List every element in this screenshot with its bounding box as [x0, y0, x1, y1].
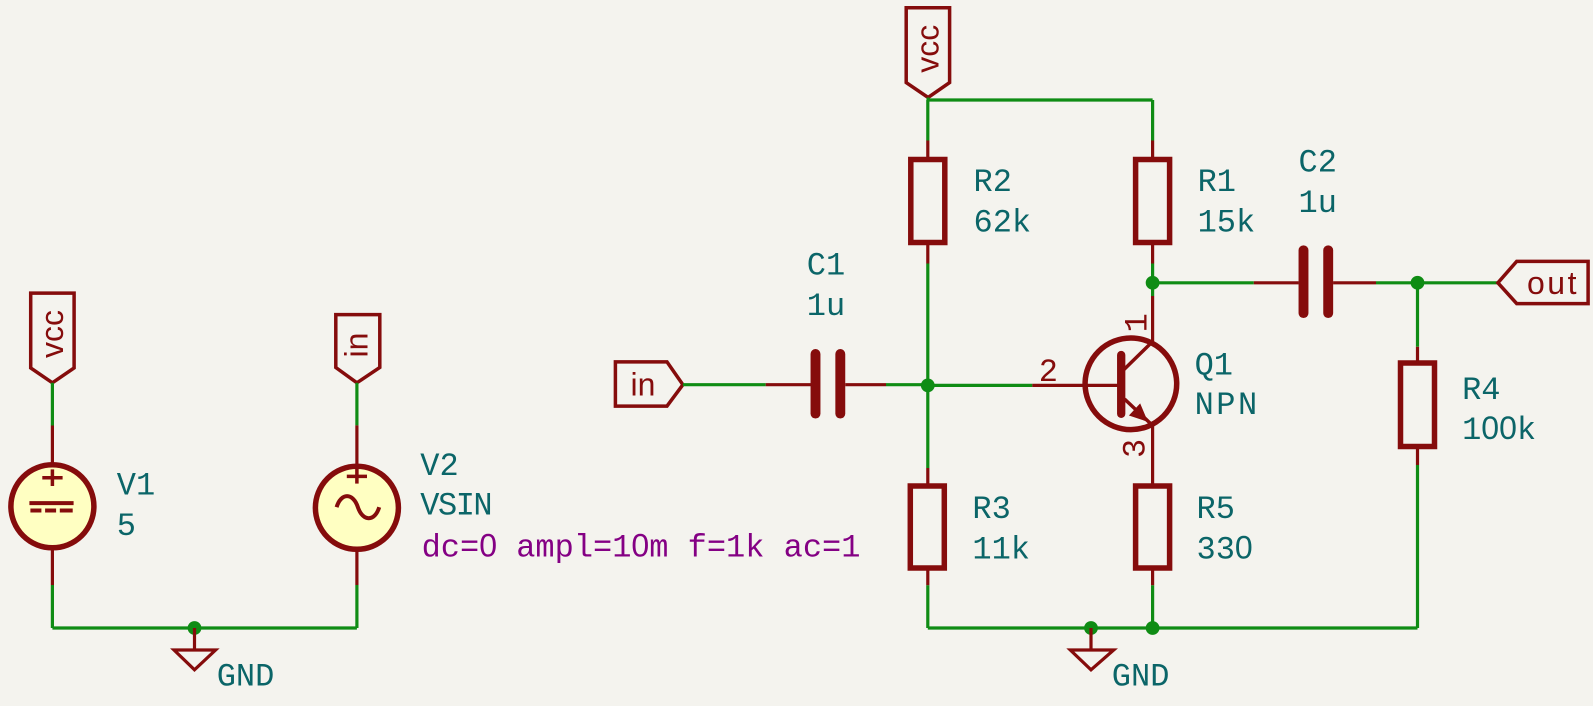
svg-text:62k: 62k	[974, 205, 1032, 242]
junction left ground node	[188, 621, 202, 635]
svg-text:1u: 1u	[1299, 185, 1337, 222]
power flag VCC (left, above V1)	[31, 293, 74, 383]
svg-text:vcc: vcc	[910, 25, 946, 73]
transistor Q1	[1032, 338, 1176, 430]
svg-text:V2: V2	[420, 448, 458, 485]
wire vcc flag to V1 pin	[51, 383, 54, 426]
capacitor C2	[1254, 250, 1376, 313]
svg-text:R1: R1	[1198, 164, 1236, 201]
ground symbol GND (left)	[174, 628, 216, 670]
voltage source V2 (VSIN)	[315, 466, 398, 549]
Q1 collector pin wire (green stub)	[1151, 283, 1154, 296]
svg-text:R2: R2	[974, 164, 1012, 201]
wire vcc down to R2	[926, 100, 929, 141]
Q1 emitter pin	[1151, 426, 1154, 487]
svg-text:330: 330	[1197, 529, 1253, 568]
resistor R3	[910, 486, 944, 568]
svg-text:2: 2	[1039, 354, 1058, 391]
svg-text:in: in	[339, 333, 375, 358]
wire V1 to ground rail	[51, 585, 54, 628]
ground symbol GND (right)	[1070, 628, 1113, 670]
svg-text:15k: 15k	[1198, 205, 1256, 242]
resistor R2	[911, 160, 945, 243]
svg-text:R4: R4	[1462, 372, 1500, 409]
svg-text:C1: C1	[807, 247, 845, 284]
svg-text:R5: R5	[1197, 491, 1235, 528]
R1 top pin	[1151, 141, 1154, 161]
wire V2 to ground rail	[355, 585, 358, 628]
resistor R1	[1136, 160, 1170, 243]
global label out	[1498, 261, 1588, 303]
wire rail down to R1	[1151, 100, 1154, 141]
R2 top pin	[926, 141, 929, 161]
V2 positive pin	[355, 425, 358, 487]
R5 bottom pin	[1151, 568, 1154, 585]
wire out node down to R4	[1416, 283, 1419, 347]
wire R1 to collector node	[1151, 264, 1154, 283]
svg-text:V1: V1	[117, 468, 155, 505]
ground rail wire (right)	[928, 626, 1418, 629]
junction collector node	[1146, 276, 1160, 290]
power flag VCC (amplifier, top)	[906, 8, 949, 98]
svg-text:VSIN: VSIN	[420, 488, 491, 525]
wire in flag to V2 pin	[355, 383, 358, 426]
wire C2 to out node	[1376, 281, 1418, 284]
ground rail wire (left)	[52, 626, 357, 629]
V2 negative pin	[355, 549, 358, 585]
resistor R4	[1401, 363, 1435, 447]
wire C1 to base node	[886, 383, 928, 386]
svg-text:Q1: Q1	[1195, 347, 1233, 384]
junction ground node (R5 leg)	[1146, 621, 1160, 635]
svg-text:out: out	[1527, 265, 1579, 301]
svg-text:NPN: NPN	[1195, 387, 1260, 424]
wire out node to out label	[1418, 281, 1499, 284]
junction base node	[921, 379, 935, 393]
svg-text:GND: GND	[1112, 659, 1170, 696]
svg-text:3: 3	[1118, 439, 1155, 458]
svg-text:5: 5	[117, 508, 136, 545]
svg-text:1u: 1u	[807, 288, 845, 325]
wire R2 to base node	[926, 264, 929, 386]
svg-text:C2: C2	[1299, 145, 1337, 182]
junction ground node (GND stem)	[1084, 621, 1098, 635]
R3 top pin	[926, 468, 929, 486]
R4 bottom pin	[1416, 447, 1419, 466]
R2 bottom pin	[926, 243, 929, 264]
V1 negative pin	[51, 548, 54, 585]
wire base node to Q1	[928, 384, 1033, 387]
wire top rail	[928, 98, 1153, 101]
Q1 collector pin	[1151, 296, 1154, 342]
svg-text:GND: GND	[217, 659, 275, 696]
R1 bottom pin	[1151, 243, 1154, 264]
svg-text:vcc: vcc	[34, 310, 70, 358]
svg-text:dc=0 ampl=10m f=1k ac=1: dc=0 ampl=10m f=1k ac=1	[422, 528, 861, 567]
capacitor C1	[766, 354, 886, 414]
wire collector node to C2	[1153, 281, 1254, 284]
resistor R5	[1136, 486, 1170, 568]
global label in (amplifier input)	[615, 362, 683, 406]
global label in (source side, above V2)	[336, 315, 380, 383]
svg-text:R3: R3	[972, 491, 1010, 528]
svg-text:1: 1	[1119, 313, 1156, 332]
svg-text:in: in	[631, 367, 656, 403]
svg-text:100k: 100k	[1462, 410, 1536, 449]
R4 top pin	[1416, 347, 1419, 364]
wire in label to C1	[683, 383, 766, 386]
junction out node	[1411, 276, 1425, 290]
R3 bottom pin	[926, 568, 929, 585]
V1 positive pin	[51, 426, 54, 488]
wire R5 to ground rail	[1151, 585, 1154, 628]
wire base node down to R3	[926, 385, 929, 468]
svg-text:11k: 11k	[972, 531, 1030, 568]
voltage source V1	[11, 465, 94, 548]
wire R4 to ground rail	[1416, 465, 1419, 628]
wire R3 to ground rail	[926, 585, 929, 628]
